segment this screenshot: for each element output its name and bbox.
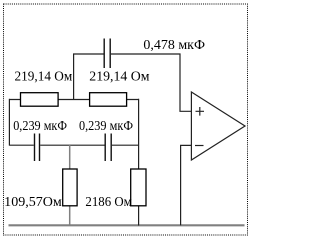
svg-text:2186 Ом: 2186 Ом	[85, 195, 132, 210]
svg-text:219,14 Ом: 219,14 Ом	[15, 69, 73, 84]
svg-text:0,239 мкФ: 0,239 мкФ	[79, 119, 133, 134]
svg-text:0,478 мкФ: 0,478 мкФ	[143, 38, 205, 53]
svg-text:0,239 мкФ: 0,239 мкФ	[13, 119, 67, 134]
svg-text:109,57Ом: 109,57Ом	[4, 195, 62, 210]
svg-text:219,14 Ом: 219,14 Ом	[89, 69, 149, 84]
